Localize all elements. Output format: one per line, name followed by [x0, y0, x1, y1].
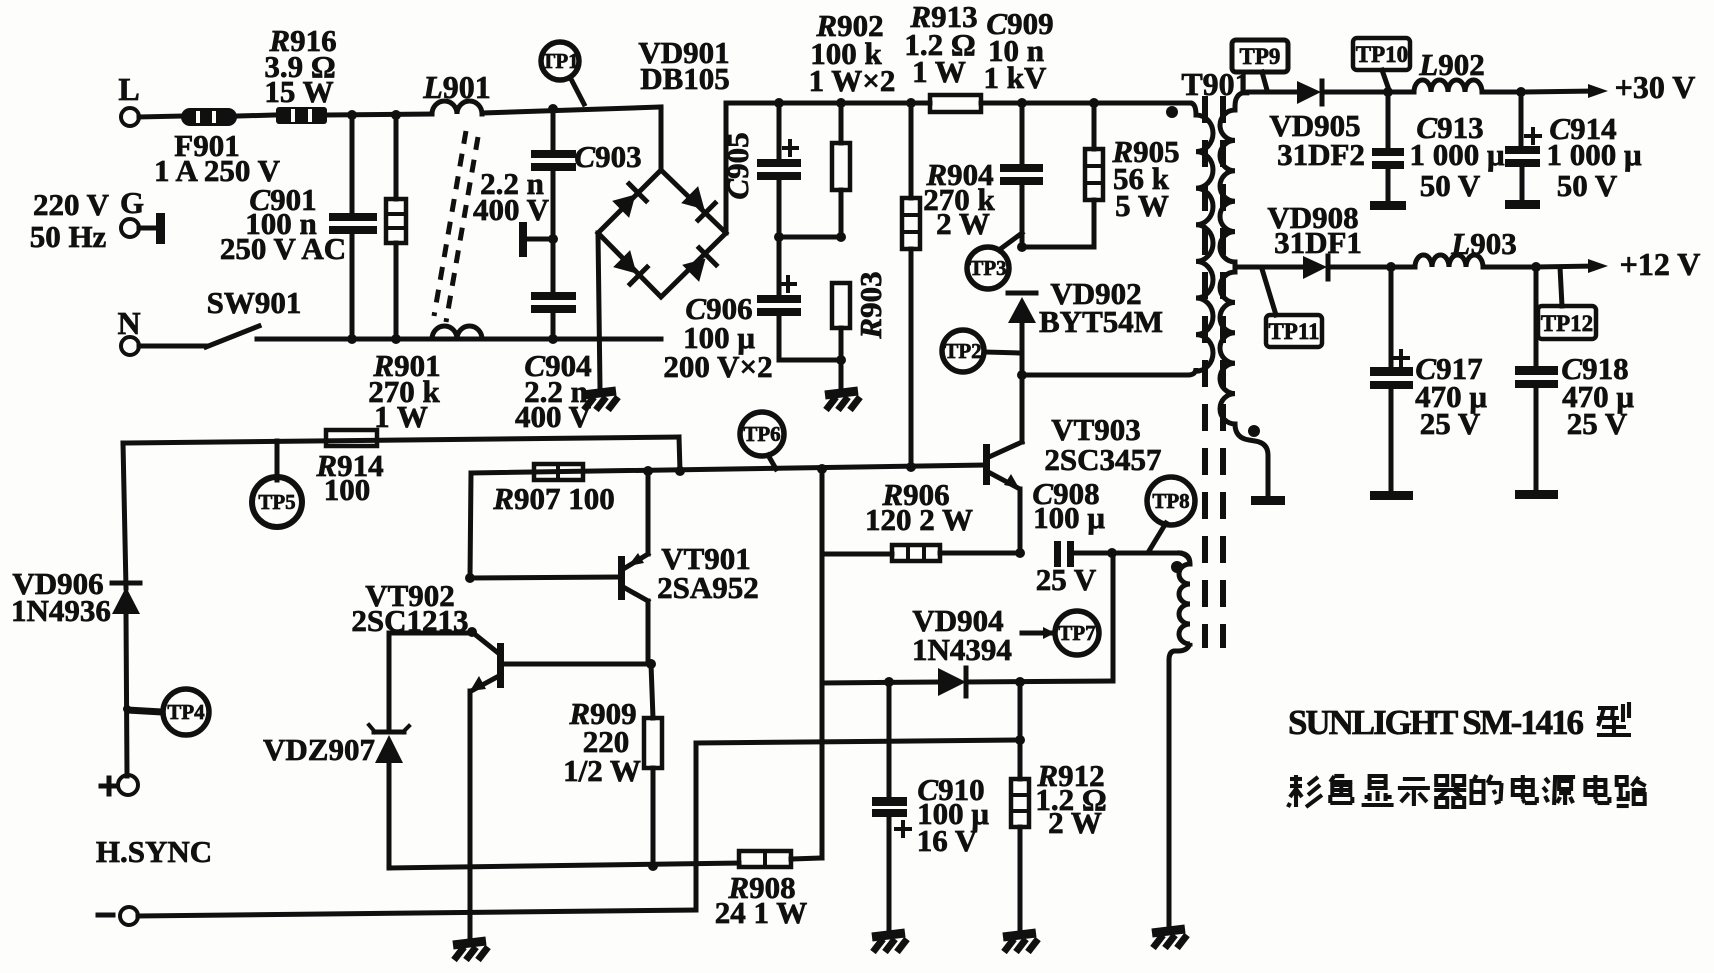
svg-text:1 000 μ: 1 000 μ — [1546, 137, 1642, 172]
resistor R906 — [822, 552, 892, 557]
diode VD902 — [1008, 291, 1036, 296]
resistor R907 — [470, 473, 471, 578]
transistor VT903 — [1020, 375, 1025, 442]
wire feedback line — [696, 740, 1020, 743]
resistor R905 — [1092, 103, 1097, 149]
svg-text:TP1: TP1 — [541, 49, 578, 73]
svg-text:1N4394: 1N4394 — [912, 632, 1012, 667]
title line2 hanzi — [1288, 775, 1646, 807]
node C904 bottom rail — [548, 334, 558, 344]
node C905 — [774, 98, 784, 108]
transistor VT902 — [467, 627, 477, 637]
svg-text:+12 V: +12 V — [1620, 246, 1701, 282]
bridge diode lower-right — [682, 248, 716, 282]
svg-text:25 V: 25 V — [1036, 562, 1097, 597]
chassis stub — [528, 237, 553, 242]
svg-text:5 W: 5 W — [1115, 188, 1169, 223]
svg-text:50 Hz: 50 Hz — [30, 219, 107, 254]
diode VD904 — [822, 682, 938, 683]
svg-text:250 V AC: 250 V AC — [220, 231, 346, 266]
svg-text:N: N — [117, 305, 140, 341]
svg-text:DB105: DB105 — [640, 61, 730, 96]
capacitor C913 — [1386, 92, 1391, 150]
svg-text:TP10: TP10 — [1356, 42, 1408, 67]
resistor R902 — [839, 103, 844, 143]
svg-text:TP7: TP7 — [1058, 621, 1095, 645]
svg-text:L902: L902 — [1418, 47, 1484, 82]
svg-text:TP2: TP2 — [944, 339, 981, 363]
capacitor C908 — [1054, 541, 1061, 567]
svg-text:1/2 W: 1/2 W — [563, 753, 641, 788]
node C903 junction — [548, 104, 558, 114]
feedback polarity dot — [1171, 561, 1183, 573]
secondary return bar — [1251, 496, 1285, 505]
wire R916 to L901 — [327, 114, 432, 115]
secondary polarity dot — [1248, 425, 1260, 437]
resistor R916 — [276, 107, 327, 124]
svg-text:TP9: TP9 — [1240, 44, 1281, 69]
inductor L901 bottom winding — [432, 326, 482, 339]
test point TP4 — [123, 705, 131, 713]
svg-text:SW901: SW901 — [207, 285, 302, 320]
svg-text:BYT54M: BYT54M — [1039, 304, 1163, 339]
svg-text:100 μ: 100 μ — [1033, 500, 1105, 535]
wire rail R913 to transformer — [981, 101, 1190, 106]
svg-text:31DF2: 31DF2 — [1277, 137, 1365, 172]
diode VD908 — [1303, 256, 1327, 279]
svg-text:TP12: TP12 — [1541, 311, 1593, 336]
svg-text:2SC3457: 2SC3457 — [1044, 442, 1161, 477]
test point TP1 — [571, 79, 584, 104]
svg-text:25 V: 25 V — [1420, 406, 1481, 441]
resistor R901 — [394, 115, 399, 199]
wire bridge minus to ground — [598, 233, 600, 388]
node R904 — [906, 98, 916, 108]
fuse F901 — [181, 108, 237, 126]
svg-text:2SA952: 2SA952 — [657, 570, 759, 605]
test point TP6 — [768, 455, 776, 469]
svg-text:TP8: TP8 — [1152, 489, 1189, 513]
svg-text:C903: C903 — [574, 139, 641, 174]
ground feedback winding — [1152, 929, 1187, 948]
test point TP5 — [275, 441, 280, 480]
resistor R903 — [832, 283, 850, 328]
ground R912 — [1003, 933, 1038, 952]
svg-text:120 2 W: 120 2 W — [865, 502, 973, 537]
svg-text:R903: R903 — [853, 271, 888, 339]
test point TP2 — [984, 352, 1020, 353]
switch SW901 — [139, 344, 206, 349]
svg-text:VDZ907: VDZ907 — [263, 732, 375, 767]
primary polarity dot — [1166, 106, 1178, 118]
test point TP11 — [1262, 269, 1276, 315]
secondary tap wire — [1235, 265, 1302, 270]
resistor R909 — [651, 664, 653, 718]
inductor L901 core dashed — [434, 131, 466, 316]
diode VD905 — [1297, 81, 1321, 104]
node R905 — [1089, 98, 1099, 108]
node junction top rail — [347, 110, 357, 120]
svg-text:15 W: 15 W — [264, 74, 333, 109]
wire mid link — [779, 235, 841, 240]
capacitor C905 — [777, 103, 782, 160]
svg-text:1 kV: 1 kV — [984, 60, 1047, 95]
resistor R908 — [739, 851, 791, 867]
resistor R904 — [909, 103, 914, 198]
capacitor C910 — [887, 682, 892, 797]
ground R903 — [825, 391, 860, 410]
wire L to F901 — [139, 116, 181, 117]
terminal minus — [120, 907, 138, 925]
inductor L901 top winding — [432, 101, 482, 114]
svg-text:R907 100: R907 100 — [492, 481, 614, 516]
test point TP9 — [1262, 72, 1267, 90]
wire bottom rail — [257, 337, 661, 342]
zener VDZ907 — [389, 631, 472, 636]
wire C908 to feedback winding — [1112, 551, 1180, 556]
capacitor C909 — [1020, 103, 1025, 165]
svg-text:TP11: TP11 — [1268, 319, 1319, 344]
svg-text:50 V: 50 V — [1420, 168, 1481, 203]
wire zener to R908 line — [389, 863, 739, 868]
bridge diode upper-left — [612, 184, 646, 218]
svg-text:TP5: TP5 — [258, 490, 295, 514]
title hanzi xing — [1597, 702, 1631, 735]
terminal H.SYNC plus — [123, 443, 126, 588]
node primary bottom — [1017, 370, 1027, 380]
wire +30V arrow — [1521, 91, 1594, 92]
svg-text:TP3: TP3 — [969, 256, 1006, 280]
svg-text:1 W: 1 W — [912, 54, 966, 89]
transistor VT901 — [465, 573, 475, 583]
bridge diode lower-left — [613, 250, 647, 284]
node C914 — [1516, 87, 1526, 97]
wire +12V arrow — [1536, 266, 1594, 267]
svg-text:50 V: 50 V — [1557, 168, 1618, 203]
svg-text:25 V: 25 V — [1567, 406, 1628, 441]
transformer primary winding — [1188, 103, 1213, 375]
ground bridge — [583, 391, 618, 410]
svg-text:1N4936: 1N4936 — [11, 593, 111, 628]
wire R914 line — [123, 437, 679, 443]
node bottom rail junctions — [347, 334, 357, 344]
capacitor C903 — [551, 109, 556, 152]
resistor R914 — [326, 430, 377, 446]
capacitor C906 — [777, 237, 782, 296]
transformer core dashed — [1202, 96, 1208, 648]
svg-text:L: L — [118, 71, 139, 107]
ground C910 — [872, 933, 907, 952]
wire bridge plus riser — [724, 103, 729, 233]
wire F901 to R916 — [237, 115, 276, 116]
wire H.SYNC line — [138, 910, 696, 916]
svg-text:400 V: 400 V — [473, 192, 550, 227]
terminal L — [121, 108, 139, 126]
capacitor C904 — [551, 239, 556, 293]
svg-text:31DF1: 31DF1 — [1274, 225, 1362, 260]
terminal N — [121, 337, 139, 355]
terminal plus — [118, 775, 138, 795]
node C903/C904 — [548, 234, 558, 244]
svg-text:2 W: 2 W — [936, 206, 990, 241]
capacitor C918 — [1534, 267, 1539, 367]
capacitor C914 — [1519, 92, 1524, 147]
svg-text:100: 100 — [324, 472, 371, 507]
transformer secondary winding — [1220, 92, 1296, 267]
svg-text:L901: L901 — [422, 69, 491, 105]
node C917 — [1386, 262, 1396, 272]
capacitor C917 — [1389, 267, 1394, 368]
svg-text:220 V: 220 V — [33, 187, 110, 222]
svg-text:+30 V: +30 V — [1615, 69, 1696, 105]
test point TP7 — [1022, 631, 1050, 636]
test point TP12 — [1560, 267, 1562, 306]
svg-text:1 W: 1 W — [374, 399, 428, 434]
svg-text:1 W×2: 1 W×2 — [809, 63, 896, 98]
svg-text:G: G — [120, 185, 144, 220]
svg-text:C905: C905 — [720, 132, 755, 199]
wire DC+ rail — [726, 101, 930, 106]
node C918 — [1531, 262, 1541, 272]
resistor R913 — [930, 95, 981, 112]
svg-text:400 V: 400 V — [515, 399, 592, 434]
svg-text:200 V×2: 200 V×2 — [663, 349, 772, 384]
diode VD906 — [112, 581, 140, 586]
ground VT902 emitter — [453, 941, 488, 960]
node C909 — [1017, 98, 1027, 108]
inductor L903 — [1391, 255, 1536, 267]
test point TP8 — [1149, 523, 1166, 551]
test point TP3 — [999, 233, 1022, 250]
node C913 — [1383, 87, 1393, 97]
resistor R912 — [1018, 682, 1023, 779]
svg-text:1 000 μ: 1 000 μ — [1409, 137, 1505, 172]
svg-text:H.SYNC: H.SYNC — [96, 834, 212, 869]
svg-text:L903: L903 — [1450, 226, 1516, 261]
test point TP10 — [1382, 70, 1389, 90]
svg-text:16 V: 16 V — [917, 823, 978, 858]
inductor L902 — [1388, 80, 1521, 92]
capacitor C901 — [350, 115, 355, 214]
svg-text:TP6: TP6 — [743, 422, 780, 446]
svg-text:2 W: 2 W — [1048, 805, 1102, 840]
wire base line — [471, 465, 984, 473]
svg-text:24 1 W: 24 1 W — [715, 895, 807, 930]
bridge diode upper-right — [681, 186, 715, 220]
node R902 — [836, 98, 846, 108]
svg-text:SUNLIGHT SM-1416: SUNLIGHT SM-1416 — [1288, 703, 1584, 742]
wire top rail to bridge — [482, 107, 661, 113]
svg-text:TP4: TP4 — [167, 700, 205, 724]
transformer feedback winding — [1169, 553, 1190, 926]
